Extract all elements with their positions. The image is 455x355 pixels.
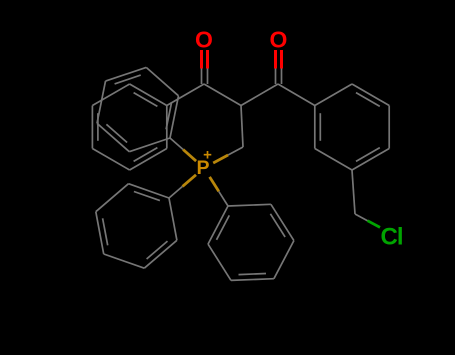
svg-text:+: + bbox=[203, 147, 212, 164]
svg-text:Cl: Cl bbox=[381, 224, 403, 251]
svg-text:O: O bbox=[195, 27, 213, 53]
svg-text:O: O bbox=[270, 27, 288, 53]
